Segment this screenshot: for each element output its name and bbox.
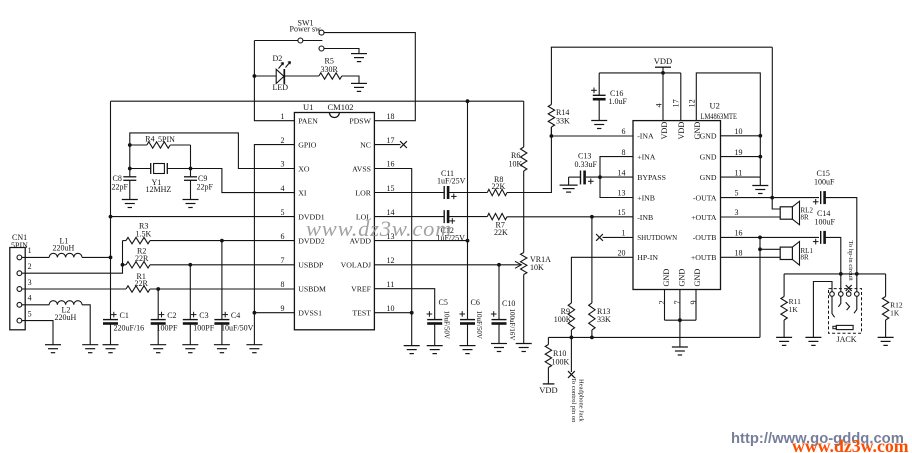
svg-text:C2: C2 [167, 311, 176, 320]
svg-text:U2: U2 [710, 101, 720, 111]
svg-text:C5: C5 [439, 298, 448, 307]
wire: CN1 pin4 to L2 [22, 304, 49, 306]
terminal: CN1 pin 2 [17, 271, 22, 276]
inductor L2 [49, 301, 82, 305]
terminal: CN1 pin 3 [17, 287, 22, 292]
ground: DVSS1 [246, 344, 262, 346]
junction: DVSS1/GPIO [253, 311, 257, 315]
svg-text:22K: 22K [492, 182, 506, 191]
wire: control-pin stub with X [570, 337, 572, 372]
ground: C6 [460, 345, 476, 347]
svg-text:C4: C4 [231, 311, 240, 320]
svg-text:1K: 1K [789, 305, 799, 314]
wire: R8 to -INA node [507, 127, 551, 193]
wire: R5 to ground [342, 76, 359, 83]
junction: RL1 top [758, 247, 762, 251]
svg-text:+OUTB: +OUTB [691, 253, 717, 262]
wire: crystal to XI pin4 [191, 169, 295, 193]
wire: U2 pin10 GND row [721, 135, 761, 137]
terminal: jack contact 2 [839, 292, 844, 297]
ground: VR1A [516, 343, 532, 345]
wire: R7 to -INB row [507, 216, 633, 218]
wire: DVSS1 pin9 [254, 312, 294, 314]
junction: crystal left [128, 167, 132, 171]
junction: sense node [570, 336, 574, 340]
svg-text:CM102: CM102 [328, 102, 354, 112]
svg-text:6: 6 [281, 232, 285, 241]
ground: R5 [351, 82, 367, 84]
resistor R13 33K [591, 217, 593, 303]
wire: headphone sense rail [548, 336, 760, 338]
inductor L1 [49, 253, 82, 257]
ground: C10 [491, 343, 507, 345]
wire: U2 pin11 GND row [721, 176, 761, 178]
svg-text:GND: GND [677, 269, 686, 287]
svg-text:100uF: 100uF [815, 218, 836, 227]
svg-text:1uF/25V: 1uF/25V [437, 177, 466, 186]
svg-text:C13: C13 [578, 152, 591, 161]
ground: jack [805, 336, 821, 338]
wire: GND stem to ground [679, 320, 681, 347]
ground: C8 [122, 199, 138, 201]
svg-text:GND: GND [700, 152, 717, 161]
capacitor C4 10uF/50V [221, 241, 223, 320]
resistor R4 5PIN [130, 144, 147, 146]
capacitor C1 220uF/16 [103, 319, 118, 321]
capacitor C8 22pF [123, 176, 136, 178]
ground: R11 [776, 336, 792, 338]
svg-text:8: 8 [622, 148, 626, 157]
junction: C10 tap [497, 263, 501, 267]
svg-text:GND: GND [662, 269, 671, 287]
svg-text:Power sw: Power sw [290, 25, 322, 34]
svg-text:12: 12 [387, 256, 395, 265]
svg-text:NC: NC [360, 140, 371, 149]
speaker RL2 8R [780, 207, 792, 219]
ground: C4 [214, 344, 230, 346]
svg-text:2: 2 [28, 262, 32, 271]
svg-text:5PIN: 5PIN [11, 241, 28, 250]
wire: C8 to ground [129, 180, 131, 199]
wire: -INA row to U2 pin6 [551, 135, 633, 137]
svg-text:100PF: 100PF [193, 323, 214, 332]
svg-text:12MHZ: 12MHZ [146, 185, 172, 194]
wire: C10 to ground [498, 322, 500, 343]
wire: rail to jack tip contacts [840, 274, 842, 292]
wire: R6 to VR1A [523, 171, 525, 253]
ground: L2 [82, 344, 98, 346]
wire: C15 to jack rail [824, 198, 857, 274]
wire: headphone jack rail [784, 273, 886, 275]
svg-text:-INB: -INB [637, 213, 653, 222]
wire: feedback rail drop at right [771, 47, 773, 197]
svg-text:15: 15 [387, 184, 395, 193]
svg-text:33K: 33K [597, 315, 611, 324]
ground: R12 [878, 336, 894, 338]
wire: AVDD pin13 to C6 rail [374, 240, 467, 242]
wire: CN1 pin2 jog to R2/R3 node [22, 241, 123, 274]
junction: AVDD [466, 239, 470, 243]
wire: +OUTB pin18 to RL1 [721, 256, 781, 258]
svg-text:USBDM: USBDM [298, 285, 326, 294]
svg-text:C10: C10 [502, 299, 515, 308]
svg-text:17: 17 [387, 136, 395, 145]
svg-text:HP-IN: HP-IN [637, 253, 658, 262]
terminal: CN1 pin 5 [17, 318, 22, 323]
svg-text:6: 6 [622, 127, 626, 136]
wire: VOLADJ pin12 to VR1A wiper [374, 264, 520, 266]
capacitor C16 1.0uF [598, 73, 600, 95]
svg-text:-INA: -INA [637, 132, 654, 141]
junction: VDD stem [661, 71, 665, 75]
wire: C14 to jack rail [824, 237, 841, 274]
svg-text:VDD: VDD [654, 56, 672, 66]
svg-text:11: 11 [387, 280, 395, 289]
no-connect X: U2 pin1 SHUTDOWN [603, 236, 634, 238]
resistor R7 22K [487, 213, 507, 219]
svg-text:8R: 8R [801, 254, 810, 262]
svg-text:R4: R4 [145, 134, 154, 143]
svg-text:3: 3 [28, 278, 32, 287]
resistor R10 100K [547, 337, 549, 344]
svg-text:LM4863MTE: LM4863MTE [701, 112, 738, 121]
svg-text:D2: D2 [273, 54, 283, 63]
wire: jack sleeve to ground [813, 282, 832, 338]
resistor R1 22R [126, 286, 150, 292]
svg-text:C6: C6 [471, 298, 480, 307]
wire: R12 to ground [885, 320, 887, 337]
svg-text:+INA: +INA [637, 152, 656, 161]
svg-text:10uF/50V: 10uF/50V [475, 311, 483, 339]
svg-text:XO: XO [298, 164, 310, 173]
junction: bottom GND join [678, 318, 682, 322]
svg-text:To hp-in circuit: To hp-in circuit [847, 241, 854, 282]
svg-text:GND: GND [693, 269, 702, 287]
capacitor C14 100uF [820, 231, 822, 244]
terminal: jack contact 3 [846, 292, 851, 297]
svg-text:0.33uF: 0.33uF [575, 160, 598, 169]
junction: -OUTA to speaker/feedback [770, 196, 774, 200]
svg-text:1.5K: 1.5K [136, 230, 152, 239]
wire: R10 to VDD (down) [547, 368, 549, 384]
svg-text:13: 13 [618, 189, 626, 198]
terminal: jack sleeve [830, 292, 835, 297]
wire: C6 to ground [467, 322, 469, 345]
wire: R9 to sense node [570, 330, 572, 337]
wire: C2 to ground [157, 322, 159, 344]
junction: pin10 GND [758, 134, 762, 138]
svg-text:10K: 10K [530, 263, 544, 272]
svg-text:5: 5 [281, 208, 285, 217]
svg-text:DVSS1: DVSS1 [298, 309, 322, 318]
svg-text:100PF: 100PF [157, 323, 178, 332]
wire: R1 to USBDM pin8 [150, 288, 294, 290]
wire: C9 to ground [190, 180, 192, 199]
wire: SW1 top to PDSW pin18 [324, 33, 415, 121]
svg-text:7: 7 [281, 256, 285, 265]
IC U1 CM102 body [294, 113, 374, 330]
wire: U2 pin12 GND loop to right-side GND pins [696, 73, 760, 177]
svg-text:11: 11 [735, 168, 743, 177]
svg-text:22R: 22R [135, 279, 149, 288]
potentiometer VR1A 10K [521, 253, 527, 275]
svg-text:4: 4 [28, 294, 32, 303]
junction: -INA node [550, 134, 554, 138]
junction: C14 drop [839, 272, 843, 276]
capacitor C10 100uF/16V [492, 319, 507, 321]
svg-text:8R: 8R [801, 213, 810, 221]
wire: C4 to ground [221, 322, 223, 344]
terminal: CN1 pin 4 [17, 302, 22, 307]
svg-text:19: 19 [735, 148, 743, 157]
resistor R2 22R [123, 264, 127, 266]
speaker RL1 8R [780, 247, 792, 259]
svg-text:LED: LED [273, 83, 289, 92]
wire: R13 to sense rail [591, 330, 593, 337]
wire: L1 to VBUS node [82, 256, 111, 258]
svg-text:www.dz3w.com: www.dz3w.com [792, 436, 909, 453]
svg-text:4: 4 [655, 103, 664, 107]
wire: DVDD1 pin5 rail [111, 216, 295, 218]
svg-text:LOR: LOR [355, 188, 371, 197]
svg-text:4: 4 [281, 184, 285, 193]
svg-text:GND: GND [693, 122, 702, 140]
wire: -OUTB sense drop to rail [759, 249, 761, 337]
svg-text:9: 9 [281, 304, 285, 313]
wire: RL2 top terminal [772, 198, 780, 209]
wire: C13 to BYPASS pin14 [586, 176, 633, 178]
resistor R5 330R [319, 73, 342, 79]
svg-text:100K: 100K [552, 358, 570, 367]
wire: VR1A to ground [523, 275, 525, 344]
wire: C13 to ground [569, 176, 581, 178]
junction: C15 drop [855, 272, 859, 276]
wire: U2 bottom GND pins 2/7/9 [664, 290, 666, 321]
wire: VBUS top rail [111, 100, 524, 102]
capacitor C2 100PF [157, 289, 159, 320]
svg-text:1: 1 [281, 112, 285, 121]
terminal: CN1 pin 1 [17, 255, 22, 260]
svg-text:VREF: VREF [351, 285, 372, 294]
wire: L2 to ground [82, 305, 90, 345]
wire: +OUTA pin3 to RL2 [721, 216, 781, 218]
capacitor C5 10uF/50V [427, 319, 442, 321]
wire: -OUTB pin16 row with C14 [721, 236, 820, 238]
wire: RL1 top terminal [760, 237, 780, 249]
resistor R6 10K [521, 147, 527, 171]
svg-text:BYPASS: BYPASS [637, 173, 666, 182]
IC U2 LM4863MTE body [633, 121, 721, 290]
svg-text:330R: 330R [321, 65, 339, 74]
junction: L1/C1 node [109, 256, 113, 260]
svg-text:22pF: 22pF [112, 182, 129, 191]
svg-text:22pF: 22pF [197, 182, 214, 191]
wire: R14 to -INA [550, 127, 552, 136]
wire: C5 to ground [434, 322, 436, 345]
svg-text:U1: U1 [303, 102, 313, 112]
junction: -OUTB branch [758, 236, 762, 240]
svg-text:18: 18 [735, 249, 743, 258]
wire: LED to R5 [284, 75, 319, 77]
capacitor C12 1uF/25V [443, 210, 445, 223]
wire: CN1 pin5 to ground [22, 321, 53, 345]
connector CN1 box [10, 248, 25, 330]
svg-text:GPIO: GPIO [298, 140, 317, 149]
svg-text:15: 15 [618, 208, 626, 217]
jack internal contacts [832, 296, 835, 317]
wire: TEST pin10 [374, 312, 411, 314]
svg-text:USBDP: USBDP [298, 261, 324, 270]
ground: C3 [182, 344, 198, 346]
svg-text:3: 3 [281, 160, 285, 169]
wire: VDD feed line to pins 4/17 and C16 [599, 72, 681, 74]
svg-text:20: 20 [618, 249, 626, 258]
svg-text:1K: 1K [890, 309, 900, 318]
svg-text:33K: 33K [556, 117, 570, 126]
wire: U2 pin17 riser [680, 73, 682, 121]
resistor R9 100K [568, 303, 574, 330]
svg-text:10: 10 [735, 127, 743, 136]
capacitor C11 1uF/25V [443, 186, 445, 199]
svg-text:7: 7 [673, 300, 682, 304]
svg-text:5: 5 [735, 189, 739, 198]
svg-text:C1: C1 [120, 311, 129, 320]
ground: C16 [591, 120, 607, 122]
svg-text:10K: 10K [509, 159, 523, 168]
wire: LOL pin14 to C12 [374, 216, 444, 218]
svg-text:100K: 100K [554, 315, 572, 324]
wire: R4 right down to C9 [190, 145, 192, 177]
wire: GPIO pin2 down to DVSS1 [254, 145, 294, 345]
svg-text:2: 2 [658, 300, 667, 304]
ground: U2 bottom [672, 346, 688, 348]
wire: XO pin3 to crystal network [130, 133, 295, 177]
junction: R13 tap [590, 215, 594, 219]
resistor R12 1K [885, 274, 887, 297]
wire: R14 branch from rail [550, 47, 552, 104]
ground: SW1 [351, 53, 367, 55]
wire: C16 to ground [598, 101, 600, 121]
capacitor C6 10uF/50V [460, 319, 475, 321]
svg-text:VDD: VDD [539, 385, 557, 395]
svg-text:1.0uF: 1.0uF [609, 97, 628, 106]
svg-text:PDSW: PDSW [349, 117, 371, 126]
resistor R11 1K [783, 274, 785, 297]
svg-text:-OUTA: -OUTA [693, 193, 717, 202]
junction: C4 tap [220, 239, 224, 243]
wire: CN1 pin3 to R1 [22, 288, 126, 290]
junction: pin19 GND [758, 155, 762, 159]
svg-text:10uF/50V: 10uF/50V [443, 311, 451, 339]
svg-text:8: 8 [281, 280, 285, 289]
ground: U2 right GND [752, 185, 768, 187]
svg-text:VDD: VDD [660, 122, 669, 140]
headphone jack dashed outline [829, 289, 862, 334]
junction: C2 tap [156, 287, 160, 291]
svg-text:12: 12 [688, 99, 697, 107]
svg-text:2: 2 [281, 136, 285, 145]
svg-text:www.dz3w.com: www.dz3w.com [306, 216, 452, 241]
svg-text:PAEN: PAEN [298, 117, 318, 126]
wire: C3 to ground [189, 322, 191, 344]
svg-text:C3: C3 [199, 311, 208, 320]
junction: DVDD1 tap [109, 215, 113, 219]
junction: AVSS/TEST [410, 311, 414, 315]
wire: R3 to DVDD2 pin6 [150, 240, 294, 242]
wire: GND stem [759, 177, 761, 185]
resistor R3 1.5K [123, 240, 127, 242]
svg-text:SHUTDOWN: SHUTDOWN [637, 233, 677, 242]
wire: output feedback top rail [551, 46, 773, 48]
wire: SW1 pole to PAEN vertical [254, 40, 298, 42]
wire: +INA/+INB tie [600, 157, 633, 198]
resistor R14 33K [548, 105, 554, 128]
svg-text:220uF/16: 220uF/16 [114, 323, 145, 332]
svg-text:+INB: +INB [637, 193, 655, 202]
svg-text:AVSS: AVSS [352, 164, 371, 173]
svg-text:Headphone Jack: Headphone Jack [578, 379, 585, 423]
ground: C5 [427, 345, 443, 347]
wire: AVSS pin16 to TEST/ground [374, 169, 411, 346]
wire: jack control stub with X [848, 290, 850, 292]
svg-text:22R: 22R [135, 254, 149, 263]
wire: C6 vertical from VBUS rail [467, 101, 469, 319]
svg-text:100uF: 100uF [814, 178, 835, 187]
jack plug body [836, 325, 853, 329]
svg-text:GND: GND [700, 173, 717, 182]
wire: R2 to USBDP pin7 [150, 264, 294, 266]
svg-text:GND: GND [700, 132, 717, 141]
capacitor C9 22pF [184, 176, 197, 178]
ground: C13 [560, 184, 578, 186]
svg-text:10: 10 [387, 304, 395, 313]
wire: R11 to ground [783, 320, 785, 337]
svg-text:22K: 22K [494, 228, 508, 237]
wire: C10 stem [498, 265, 500, 320]
svg-text:VOLADJ: VOLADJ [341, 261, 371, 270]
junction: C3 tap [188, 263, 192, 267]
junction: crystal right [189, 167, 193, 171]
wire: CN1 pin1 to L1 [22, 256, 49, 258]
svg-text:14: 14 [618, 168, 626, 177]
svg-text:-OUTB: -OUTB [693, 233, 717, 242]
svg-text:VDD: VDD [677, 122, 686, 140]
wire: PAEN pin1 riser [254, 41, 294, 121]
svg-text:5PIN: 5PIN [158, 135, 175, 144]
wire: -OUTA pin5 row with C15 [721, 197, 820, 199]
svg-text:JACK: JACK [837, 335, 857, 344]
svg-text:5: 5 [28, 309, 32, 318]
svg-text:10uF/50V: 10uF/50V [221, 323, 254, 332]
junction: VBUS rail to C6 [466, 99, 470, 103]
junction: LED branch [253, 74, 257, 78]
svg-text:100uF/16V: 100uF/16V [508, 309, 516, 341]
ground: AVSS/TEST [404, 345, 420, 347]
junction: R2/R3 left node [121, 263, 125, 267]
wire: U2 pin19 GND row [721, 156, 761, 158]
capacitor C15 100uF [820, 191, 822, 204]
ground: CN1 pin5 [45, 344, 61, 346]
no-connect X: U1 pin17 NC [374, 144, 400, 146]
wire: C11 to R8 [448, 192, 488, 194]
junction: R4 left [128, 143, 132, 147]
wire: left VBUS vertical with C1 node [110, 101, 112, 319]
wire: HP-IN pin20 to R9 [571, 257, 633, 303]
ground: C2 [150, 344, 166, 346]
svg-text:XI: XI [298, 188, 307, 197]
svg-text:1: 1 [622, 229, 626, 238]
svg-text:220uH: 220uH [55, 313, 77, 322]
